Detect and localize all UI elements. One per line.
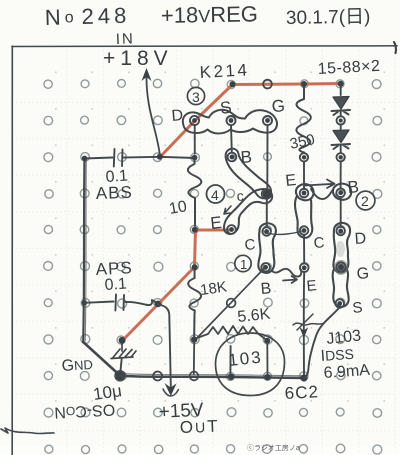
ground red node (119, 337, 126, 344)
wire: E(1) down to bottom rail node (with direction arrow) (303, 272, 305, 374)
graphite smudge at G (334, 260, 348, 275)
wire: S pad down to B(4) (230, 126, 233, 153)
pad 350 bottom (300, 153, 308, 161)
svg-text:B: B (260, 280, 272, 298)
transistor (2) blob: B pad lobe (333, 184, 351, 200)
wire: cap to IN junction to column D (124, 157, 196, 158)
wire: rail bend diagonal into GND pad (83, 342, 120, 376)
transistor (2) blob: E pad lobe (296, 184, 314, 200)
node at (194.5,157) (192, 155, 198, 161)
pad D (190, 116, 199, 125)
pad between diodes (337, 116, 345, 124)
wire: cap to OUT junction (126, 300, 158, 305)
board left border line (11, 46, 13, 455)
svg-text:10: 10 (168, 198, 189, 218)
svg-text:5.6K: 5.6K (237, 306, 272, 326)
svg-text:B: B (240, 147, 253, 167)
pad on bottom rail (267.5) (264, 374, 270, 380)
wire to diode D2 (340, 112, 342, 129)
wire: left rail vertical (0.1ABS row down to GND bend) (83, 159, 84, 343)
board top border line (12, 45, 397, 48)
svg-text:K214: K214 (199, 60, 250, 82)
wire: top 0.1ABS row: rail to cap (85, 158, 113, 159)
svg-text:No248: No248 (44, 3, 130, 30)
output arrow head (down) (165, 383, 177, 396)
circled 1 (235, 255, 251, 271)
svg-text:G: G (271, 96, 285, 116)
svg-text:C: C (244, 236, 256, 254)
svg-text:ⓒラジオ工房ノa: ⓒラジオ工房ノa (247, 443, 300, 452)
node red top of 18K (192, 264, 198, 270)
wire: APS row rail to cap (84, 302, 113, 303)
pad E(1) (300, 264, 309, 273)
pad D(J103) (336, 227, 345, 236)
svg-text:+18VREG: +18VREG (161, 1, 258, 28)
FET K214 outline blob (3) (183, 110, 277, 134)
node C(4) big junction (263, 190, 271, 198)
pad B(2) (336, 188, 345, 197)
arrow toward E(1) (283, 276, 297, 283)
border end mark top right (394, 42, 396, 53)
svg-text:C: C (313, 234, 325, 252)
diode D1 (1S88) (333, 97, 349, 110)
pad E(2) (300, 189, 309, 198)
wire: ground symbol to GND pad (120, 359, 121, 374)
arrow E to B (304, 180, 335, 189)
ground hatch symbol (111, 344, 136, 359)
resistor 5.6K (horizontal zigzag) (197, 326, 265, 339)
transistor (2) blob: lobe E to C (295, 196, 312, 238)
node: left rail top corner (82, 156, 87, 161)
hole ring over red rail at col 267.5 (263, 80, 272, 89)
left margin scribble (1, 428, 54, 434)
circled 4 (207, 185, 225, 203)
node (194.5,230) red junction (192, 227, 198, 233)
JFET J103 blob: lobe D to G (333, 223, 350, 273)
svg-text:E: E (209, 213, 222, 233)
left rail node at APS row (82, 300, 87, 305)
capacitor 0.1 ABS (plates) (114, 149, 123, 167)
pad G(J103) (337, 263, 346, 272)
svg-text:30.1.7(日): 30.1.7(日) (286, 7, 371, 29)
wire: B(2) down to D(J103) (340, 197, 342, 227)
svg-text:6C2: 6C2 (284, 382, 319, 403)
resistor 18K (vertical zigzag) (188, 268, 201, 336)
node 5.6K right (264, 338, 270, 344)
transistor (1) blob: lobe C to B (vertical capsule) (258, 223, 276, 273)
svg-text:0.1: 0.1 (104, 275, 127, 294)
diode D2 (1S88) (333, 130, 349, 143)
strike squiggle mark (293, 314, 322, 330)
svg-text:10μ: 10μ (92, 381, 123, 404)
half-grid tick specks (55, 72, 385, 402)
svg-text:OS-CON: OS-CON (54, 401, 116, 421)
wire: C(4) down to C(1) (266, 199, 268, 228)
svg-text:1: 1 (240, 257, 247, 272)
wire: 103 cap left lead (229, 346, 231, 375)
printed perfboard hole pads (44, 79, 382, 454)
svg-text:J103: J103 (326, 327, 362, 348)
resistor 350: red rail node (301, 81, 307, 87)
transistor (4) blob: lobe B to C (226, 149, 271, 199)
svg-text:ABS: ABS (95, 183, 133, 203)
red junction dots on rail (230, 81, 236, 87)
pad B(1) (261, 263, 270, 272)
pad S (226, 116, 235, 125)
pad C(2) (300, 226, 309, 235)
capacitor APS 0.1 (plates) (115, 295, 124, 311)
JFET J103 blob: lobe G to S (333, 268, 349, 307)
pad G (263, 116, 272, 125)
node: OUT junction (158,303.5) (155, 301, 161, 307)
wire: D pad down to IN row (194, 125, 196, 154)
circled 3 (187, 87, 204, 104)
svg-text:c: c (236, 188, 244, 204)
red wire: +18V rail and feed (junction row to FET drain to IN) (161, 84, 342, 157)
wire: D2 pad to B(2) (340, 146, 342, 188)
svg-text:15-88×2: 15-88×2 (317, 58, 380, 78)
svg-text:6.9mA: 6.9mA (323, 362, 371, 382)
pad E(4) (227, 225, 236, 234)
capacitor 103 disc outline (216, 333, 285, 396)
svg-text:E: E (306, 277, 317, 295)
transistor (4) blob: lobe C to E (224, 189, 272, 234)
svg-text:+18V: +18V (103, 47, 173, 70)
hole ring over diagonal at (231,303) (227, 299, 236, 308)
svg-text:D: D (171, 107, 184, 125)
wire into diode D1 (340, 84, 342, 95)
transistor (2) wavy link E-B (311, 189, 333, 199)
red wire: E(4) to 18K top, down and diagonal to GND area (123, 230, 230, 341)
resistor 350 (vertical zigzag) (296, 87, 311, 153)
wire: B(1) diagonal down to 5.6K left node (198, 269, 264, 338)
pad on bottom rail (231) (228, 374, 234, 380)
svg-text:G: G (356, 265, 370, 283)
bottom rail wire: GND pad to output node (120, 376, 304, 378)
wire: G pad down to C(4) (266, 125, 268, 190)
wire: C(2) down to E(1) (303, 235, 305, 263)
svg-text:D: D (354, 230, 367, 248)
svg-text:103: 103 (227, 347, 263, 369)
svg-text:2: 2 (361, 193, 369, 209)
wire: 5.6K left node down to bottom rail (193, 342, 195, 374)
pad below D2 (337, 153, 345, 161)
input arrow (up) from IN junction (146, 75, 160, 156)
node: bottom rail right end (300, 374, 307, 381)
svg-text:S: S (352, 299, 364, 317)
svg-text:GND: GND (61, 356, 93, 375)
svg-text:OUT: OUT (179, 417, 219, 437)
wire: S(J103) curving down to bottom rail node (305, 308, 340, 378)
node: IN junction (157, 154, 163, 160)
GND pad (116, 371, 125, 380)
pad S(J103) (335, 299, 344, 308)
wire: 350 to E(2) (303, 162, 305, 189)
svg-text:4: 4 (211, 187, 219, 203)
wire: C(1) over to C(2) (269, 232, 301, 235)
pad B(4) (228, 153, 237, 162)
svg-text:IN: IN (116, 30, 136, 48)
svg-text:E: E (285, 172, 297, 190)
diode string node on red rail (338, 81, 344, 87)
hole rings over bottom rail (153, 372, 162, 381)
resistor 10 (vertical zigzag) (188, 160, 202, 226)
wire: 5.6K right node down to bottom rail (266, 343, 268, 375)
transistor (1) wavy lobe B to E (272, 269, 301, 277)
circled 2 (356, 191, 375, 210)
node bottom of 18K / 5.6K left (191, 336, 197, 342)
pad C(1) (262, 227, 271, 236)
svg-text:3: 3 (192, 89, 200, 105)
wire: OUT junction down to output arrow (158, 304, 171, 387)
